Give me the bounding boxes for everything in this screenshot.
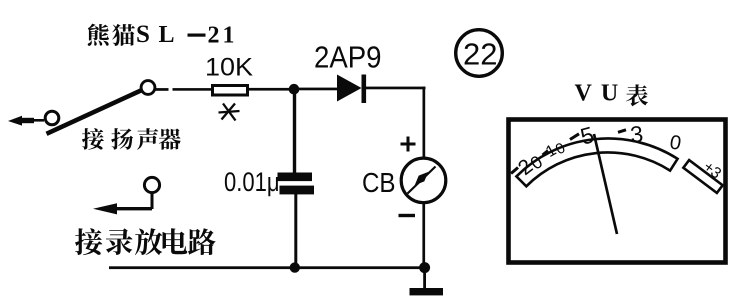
label title char 猫 bbox=[112, 24, 135, 46]
svg-text:22: 22 bbox=[463, 37, 497, 72]
svg-text:2: 2 bbox=[208, 22, 220, 48]
wire node A to diode bbox=[298, 88, 338, 91]
scale label -5 bbox=[570, 121, 597, 149]
svg-text:VU: VU bbox=[575, 81, 628, 107]
switch S1 pole terminal bbox=[45, 111, 59, 125]
meter M circle bbox=[401, 158, 446, 203]
svg-text:3: 3 bbox=[629, 121, 644, 148]
wire node C to ground bbox=[423, 268, 426, 289]
meter needle bbox=[408, 167, 436, 194]
wire node A down to capacitor bbox=[293, 92, 296, 173]
terminal to record circuit bbox=[144, 177, 159, 192]
VU meter needle bbox=[594, 134, 617, 234]
meter plus sign bbox=[401, 137, 416, 152]
label 电 of 接录放电路 bbox=[163, 228, 188, 254]
svg-text:L: L bbox=[159, 22, 175, 48]
label 接 of 接扬声器 bbox=[82, 128, 104, 150]
resistor 10K body bbox=[213, 86, 248, 96]
svg-text:10K: 10K bbox=[205, 54, 253, 82]
VU meter +3 band segment bbox=[683, 160, 722, 193]
label 放 of 接录放电路 bbox=[135, 228, 162, 255]
scale label -20 bbox=[511, 152, 546, 180]
diode 2AP9 cathode bar bbox=[362, 75, 367, 104]
asterisk mark bbox=[219, 104, 240, 121]
svg-text:0.01μ: 0.01μ bbox=[224, 167, 280, 197]
figure number circle 22 bbox=[456, 30, 503, 77]
bottom ground rail wire bbox=[109, 266, 425, 269]
wire meter to node B bbox=[422, 201, 425, 267]
wire capacitor down to bottom rail bbox=[294, 194, 297, 268]
node A junction dot bbox=[289, 84, 300, 95]
label 路 of 接录放电路 bbox=[188, 228, 216, 255]
switch S1 blade bbox=[47, 90, 144, 134]
VU meter box bbox=[509, 120, 726, 263]
wire switch to resistor bbox=[156, 88, 212, 91]
label 扬 of 接扬声器 bbox=[111, 128, 133, 150]
wire corner down to meter bbox=[423, 87, 426, 159]
capacitor 0.01u bottom plate bbox=[280, 186, 315, 195]
node C junction dot (meter/ground) bbox=[419, 262, 430, 273]
wire resistor to node A bbox=[248, 88, 291, 91]
label 接 of 接录放电路 bbox=[75, 228, 102, 255]
scale label -10 bbox=[543, 140, 569, 161]
diode 2AP9 triangle bbox=[337, 75, 362, 102]
svg-text:2AP9: 2AP9 bbox=[314, 40, 382, 75]
label 录 of 接录放电路 bbox=[106, 228, 133, 255]
ground symbol bbox=[410, 288, 444, 295]
meter minus sign bbox=[399, 214, 416, 217]
capacitor 0.01u top plate bbox=[278, 173, 313, 182]
label 表 of VU表 bbox=[626, 84, 648, 106]
wire diode to top-right corner bbox=[366, 87, 426, 90]
svg-text:S: S bbox=[136, 21, 150, 48]
switch S1 throw terminal bbox=[141, 81, 155, 95]
label 器 of 接扬声器 bbox=[159, 128, 181, 149]
arrow to speaker bbox=[8, 116, 44, 126]
node B junction dot (capacitor) bbox=[290, 262, 300, 272]
wire terminal down-left with arrow bbox=[93, 192, 154, 214]
svg-text:1: 1 bbox=[223, 22, 235, 48]
label 声 of 接扬声器 bbox=[137, 128, 158, 150]
scale label -3 bbox=[618, 121, 644, 148]
VU meter scale band bbox=[516, 138, 677, 186]
label title char 熊 bbox=[88, 24, 109, 46]
svg-text:CB: CB bbox=[362, 167, 396, 198]
